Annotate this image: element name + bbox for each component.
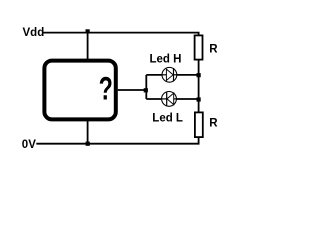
resistor R1 top bbox=[195, 35, 203, 59]
LED D2 cathode wire bbox=[161, 98, 166, 100]
wire branch to Led L bbox=[146, 98, 198, 100]
svg-text:Led H: Led H bbox=[150, 54, 182, 66]
wire box to 0V rail bbox=[87, 121, 89, 144]
wire box output bbox=[118, 89, 147, 91]
LED D2 triangle bbox=[167, 93, 174, 104]
LED D2 cathode bar bbox=[166, 92, 168, 106]
wire branch to Led H bbox=[146, 74, 198, 76]
resistor R2 bottom bbox=[195, 112, 203, 137]
svg-text:R: R bbox=[209, 44, 218, 56]
LED D1 cathode bar bbox=[173, 68, 175, 81]
node junction Led H / rail bbox=[197, 73, 201, 77]
svg-text:R: R bbox=[209, 118, 218, 130]
wire Vdd rail bbox=[44, 33, 199, 36]
svg-text:?: ? bbox=[99, 70, 113, 106]
LED D1 anode wire bbox=[162, 74, 167, 76]
LED D1 triangle bbox=[166, 69, 173, 80]
wire Vdd to box top bbox=[87, 33, 89, 60]
wire R2 to 0V rail bbox=[198, 137, 200, 144]
op-amp U1 unknown box bbox=[44, 61, 115, 120]
wire output split vertical bbox=[145, 75, 147, 99]
LED D2 Led L body bbox=[162, 92, 177, 107]
svg-text:Led L: Led L bbox=[152, 112, 183, 124]
svg-text:Vdd: Vdd bbox=[23, 27, 45, 39]
wire right rail between resistors bbox=[198, 60, 200, 112]
node junction Vdd/box bbox=[86, 29, 90, 33]
svg-text:0V: 0V bbox=[22, 139, 36, 151]
node junction box / 0V rail bbox=[86, 142, 90, 146]
LED D1 cathode wire bbox=[174, 74, 178, 76]
LED D1 Led H body bbox=[162, 67, 177, 82]
node junction output split bbox=[144, 88, 148, 92]
LED D2 anode wire bbox=[174, 98, 177, 100]
node junction Led L / rail bbox=[197, 97, 201, 101]
wire 0V rail bbox=[36, 143, 199, 145]
